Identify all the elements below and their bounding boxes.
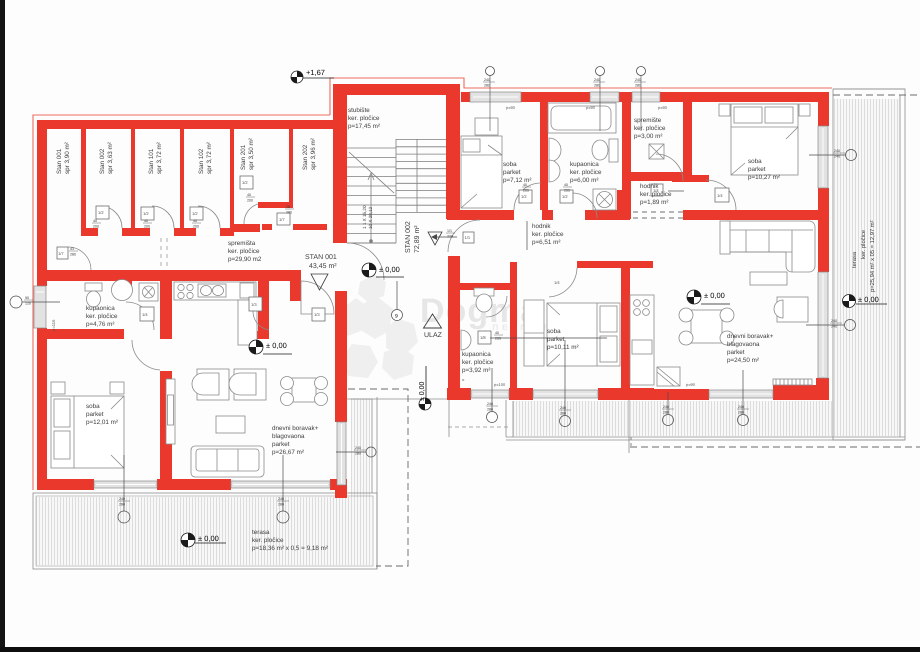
sofa living left <box>191 446 264 477</box>
door arc spremiste <box>656 154 683 181</box>
svg-text:280: 280 <box>594 84 600 88</box>
wardrobe soba 10,11 <box>524 300 544 366</box>
bed soba 12,01 <box>51 396 124 468</box>
top row bottom wall seg1 <box>447 210 514 220</box>
dim circle terrace left 2 <box>277 455 289 523</box>
svg-text:p=7,12 m²: p=7,12 m² <box>503 177 532 184</box>
svg-text:240: 240 <box>487 402 493 406</box>
svg-text:1/1: 1/1 <box>465 235 471 240</box>
svg-text:ker. pločice: ker. pločice <box>640 191 672 198</box>
window top wall above kupaonica <box>590 92 619 102</box>
svg-text:ker. pločice: ker. pločice <box>462 359 494 366</box>
svg-text:p=6,51 m²: p=6,51 m² <box>532 239 561 246</box>
left outer wall lower <box>37 328 47 479</box>
storage divider 1 <box>81 129 86 228</box>
svg-text:soba: soba <box>86 403 100 410</box>
svg-text:ker. pločice: ker. pločice <box>228 248 260 255</box>
svg-text:p=100: p=100 <box>494 382 506 387</box>
bed soba 10,27 <box>731 104 798 175</box>
svg-text:40: 40 <box>495 331 499 335</box>
svg-text:1/1: 1/1 <box>447 229 452 233</box>
toilet kupaonica 6,00 <box>609 139 618 162</box>
marker +0,00 left apt <box>249 340 292 354</box>
svg-text:soba: soba <box>547 328 561 335</box>
svg-text:p=90: p=90 <box>658 105 668 110</box>
svg-text:1/2: 1/2 <box>562 194 568 199</box>
svg-text:1/2: 1/2 <box>143 211 149 216</box>
entry arrow STAN 002 <box>431 234 457 240</box>
bed soba 10,11 <box>547 303 620 366</box>
svg-text:1/3: 1/3 <box>251 302 257 307</box>
svg-text:p=3,92 m²: p=3,92 m² <box>462 367 491 374</box>
marker +0,00 right apt <box>687 290 730 304</box>
armchair living left b <box>234 369 266 400</box>
shower kupaonica 4,76 <box>139 283 158 301</box>
svg-text:240: 240 <box>831 325 837 329</box>
roof overhang dash line top right <box>833 94 920 96</box>
door leaf boxes <box>57 176 729 344</box>
right outer wall seg1 <box>818 102 829 126</box>
svg-text:ker. pločice: ker. pločice <box>86 313 118 320</box>
storage block top wall <box>37 120 347 129</box>
svg-text:1/7: 1/7 <box>58 251 64 256</box>
window right wall upper <box>818 126 828 188</box>
sink left apt <box>198 284 226 297</box>
storage divider 3 <box>180 129 184 228</box>
svg-text:240: 240 <box>834 149 840 153</box>
terrace bottom-left (hatched) <box>33 389 449 569</box>
leader line kupaonica 3,92 <box>490 337 607 339</box>
svg-text:280: 280 <box>487 408 493 412</box>
svg-text:ker. pločice: ker. pločice <box>634 125 666 132</box>
tv bench living left <box>166 379 175 444</box>
door arc kitchen niche <box>253 311 269 330</box>
svg-text:dnevni boravak+: dnevni boravak+ <box>727 333 774 340</box>
door arc soba 10,27 <box>706 180 736 210</box>
right apt bottom wall seg3 <box>598 388 654 400</box>
svg-text:240: 240 <box>738 405 744 409</box>
svg-text:1/8: 1/8 <box>480 335 486 340</box>
svg-text:205: 205 <box>564 189 570 193</box>
svg-text:parket: parket <box>727 349 745 356</box>
door arc storage cell 2 <box>100 206 122 228</box>
stove right apt <box>634 300 641 307</box>
divider stub above hodnik <box>617 190 630 219</box>
svg-text:p=3,00 m²: p=3,00 m² <box>634 133 663 140</box>
svg-text:240: 240 <box>834 155 840 159</box>
stair treads left flight <box>347 148 396 243</box>
svg-text:p=1,89 m²: p=1,89 m² <box>640 199 669 206</box>
thin red outline left building <box>33 78 832 490</box>
door arc kupaonica 3,92 <box>486 296 507 317</box>
door arc storage cell 4 <box>198 206 220 228</box>
svg-text:p=116: p=116 <box>51 319 56 331</box>
stove left apt <box>178 284 184 290</box>
scan edge bar left <box>0 0 5 652</box>
soba / living divider upper <box>160 281 172 339</box>
stair walk line with arrow <box>370 175 372 242</box>
svg-text:1/2: 1/2 <box>242 180 248 185</box>
svg-text:280: 280 <box>119 503 125 507</box>
circle 9 porch <box>392 281 403 321</box>
divider soba/kupaonica top row <box>540 102 548 210</box>
svg-text:kupaonica: kupaonica <box>462 351 491 358</box>
svg-text:± 0,00: ± 0,00 <box>704 291 725 300</box>
stairwell left wall <box>333 95 347 243</box>
svg-text:43,45 m²: 43,45 m² <box>309 263 337 270</box>
svg-text:240: 240 <box>635 78 641 82</box>
dim circle right apt bottom 3 <box>663 392 674 426</box>
svg-text:p=26,67 m²: p=26,67 m² <box>272 449 304 456</box>
svg-text:STAN 001: STAN 001 <box>305 254 337 261</box>
right apt bottom wall seg2 <box>509 388 533 400</box>
sink kupaonica 3,92 <box>461 330 471 350</box>
svg-text:hodnik: hodnik <box>532 223 551 230</box>
left outer wall upper <box>37 120 47 286</box>
storage divider 5 <box>289 129 293 207</box>
right apt bottom wall seg1 <box>447 388 471 400</box>
toilet kupaonica 4,76 <box>85 283 102 291</box>
window bottom left apt 1 <box>94 481 157 488</box>
svg-text:200: 200 <box>144 225 150 229</box>
svg-text:1/2: 1/2 <box>98 210 104 215</box>
nightstand soba 12,01 b <box>110 382 124 394</box>
svg-text:1/4: 1/4 <box>554 280 560 285</box>
svg-text:ker. pločice: ker. pločice <box>570 169 602 176</box>
svg-text:p=12,01 m²: p=12,01 m² <box>86 419 118 426</box>
living room right wall <box>335 291 347 422</box>
stacked dim labels <box>24 78 845 507</box>
door arc storage cell 1 <box>68 247 91 270</box>
svg-text:240: 240 <box>355 446 361 450</box>
armchair living left a <box>197 369 229 400</box>
svg-text:240: 240 <box>484 78 490 82</box>
divider kupaonica/spremiste <box>622 102 631 219</box>
right apt bottom wall corner <box>773 385 829 400</box>
svg-text:205: 205 <box>523 189 529 193</box>
door arc kupaonica 6,00 <box>572 193 597 218</box>
watermark logo flower <box>336 274 418 380</box>
coffee table living left <box>216 416 245 433</box>
nightstand soba 12,01 a <box>51 382 65 394</box>
svg-text:ker. pločice: ker. pločice <box>348 115 380 122</box>
dining table left <box>292 378 316 402</box>
svg-text:p=10,11 m²: p=10,11 m² <box>547 344 579 351</box>
kitchen niche wall horizontal <box>240 331 269 339</box>
svg-text:1/3: 1/3 <box>314 312 320 317</box>
svg-text:240: 240 <box>663 405 669 409</box>
svg-text:blagovaona: blagovaona <box>727 341 760 348</box>
bathroom bottom wall <box>47 329 124 339</box>
svg-text:spremište: spremište <box>634 117 662 124</box>
door arc stairwell entry <box>347 243 384 280</box>
window top wall above soba 7,12 <box>470 92 521 102</box>
bottom wall left apartment seg1 <box>37 479 94 490</box>
window bottom right apt 2 <box>533 390 598 398</box>
scan edge bar bottom <box>0 647 920 652</box>
stair break diagonal <box>349 152 394 193</box>
svg-text:40: 40 <box>564 183 568 187</box>
window right wall lower <box>818 272 828 378</box>
kitchen counter right apt <box>630 295 654 385</box>
kitchen counter left apt <box>174 282 256 300</box>
right outer wall corner block <box>816 378 829 400</box>
svg-text:± 0,00: ± 0,00 <box>858 295 879 304</box>
soba 10,11 top wall <box>577 261 653 268</box>
marker +0,00 porch vertical <box>419 366 431 410</box>
svg-text:1/4: 1/4 <box>717 193 723 198</box>
svg-text:205: 205 <box>495 337 501 341</box>
corridor bottom wall / left apt top wall <box>37 270 301 281</box>
right building top wall <box>461 92 829 102</box>
svg-text:± 0,00: ± 0,00 <box>379 265 400 274</box>
svg-text:280: 280 <box>278 503 284 507</box>
storage divider 2 <box>131 129 135 228</box>
dishwasher right apt <box>657 367 680 386</box>
svg-text:spremišta: spremišta <box>228 240 256 247</box>
fridge left apt <box>240 283 254 298</box>
leader line hodnik 6,51 <box>526 221 528 250</box>
spremiste bottom wall <box>631 172 683 181</box>
svg-text:± 0,00: ± 0,00 <box>419 381 426 401</box>
dim circle right apt bottom 2 <box>560 340 571 427</box>
svg-text:blagovaona: blagovaona <box>272 433 305 440</box>
top row bottom wall seg2 <box>542 210 553 220</box>
door leaf soba 10,27 <box>720 221 730 254</box>
window left wall <box>34 286 46 328</box>
washing machine kupaonica 6,00 <box>593 189 616 210</box>
svg-text:parket: parket <box>86 411 104 418</box>
bed soba 7,12 <box>461 136 502 208</box>
svg-text:240: 240 <box>560 406 566 410</box>
dim circle right apt bottom 4 <box>738 370 749 426</box>
svg-text:parket: parket <box>503 169 521 176</box>
top row bottom wall seg3 <box>585 210 630 220</box>
leader line hodnik 1,89 <box>668 190 684 192</box>
svg-text:280: 280 <box>663 411 669 415</box>
sink kupaonica 4,76 <box>112 280 133 301</box>
svg-text:dnevni boravak+: dnevni boravak+ <box>272 425 319 432</box>
svg-text:stubište: stubište <box>348 107 370 114</box>
dim circle terrace right 1 <box>809 150 857 161</box>
svg-text:40: 40 <box>193 219 197 223</box>
svg-text:kupaonica: kupaonica <box>86 305 115 312</box>
svg-text:p=17,45 m²: p=17,45 m² <box>348 123 380 130</box>
svg-text:28: 28 <box>286 205 290 209</box>
kitchen niche wall vertical <box>258 281 269 332</box>
desk with chair right <box>777 297 808 322</box>
marker +0,00 stair <box>362 263 404 277</box>
soba / living divider lower <box>160 371 172 479</box>
kupaonica 3,92 right wall <box>510 262 517 388</box>
dim circle terrace right 2 <box>806 320 856 331</box>
svg-text:p=18,36 m² x 0,5 = 9,18 m²: p=18,36 m² x 0,5 = 9,18 m² <box>252 545 328 552</box>
svg-text:+1,67: +1,67 <box>306 68 325 77</box>
svg-text:43: 43 <box>70 247 74 251</box>
svg-text:40: 40 <box>93 219 97 223</box>
svg-text:1/4: 1/4 <box>142 312 148 317</box>
svg-text:1/2: 1/2 <box>192 211 198 216</box>
svg-text:ker. pločice: ker. pločice <box>532 231 564 238</box>
svg-text:280: 280 <box>635 84 641 88</box>
svg-text:1 1 X 15,2010 X 28,12: 1 1 X 15,2010 X 28,12 <box>362 205 373 229</box>
hodnik top wall piece <box>672 175 709 182</box>
dashed section lines corridor <box>161 238 167 269</box>
bottom wall left apartment seg2 <box>157 479 231 490</box>
svg-text:280: 280 <box>70 253 76 257</box>
door arc porch to right apt <box>448 220 480 252</box>
marker +0,00 terrace bottom <box>181 533 226 547</box>
svg-text:240: 240 <box>278 497 284 501</box>
svg-text:p=24,50 m²: p=24,50 m² <box>727 357 759 364</box>
marker +1,67 <box>291 68 334 83</box>
stair center line <box>395 139 397 243</box>
soba 10,11 right wall <box>621 268 630 400</box>
svg-text:200: 200 <box>93 225 99 229</box>
nightstand soba 10,27 left <box>719 104 730 116</box>
tiny p=90 labels <box>494 105 696 387</box>
storage cells bottom wall segments <box>81 228 98 236</box>
svg-text:p=90: p=90 <box>686 382 696 387</box>
sofa living right <box>721 221 815 272</box>
svg-text:p=29,90 m2: p=29,90 m2 <box>228 256 262 263</box>
svg-text:parket: parket <box>748 166 766 173</box>
svg-text:p=90: p=90 <box>506 105 516 110</box>
svg-text:soba: soba <box>748 158 762 165</box>
svg-text:120: 120 <box>25 302 31 306</box>
svg-text:terasa: terasa <box>252 529 270 536</box>
svg-text:240: 240 <box>831 319 837 323</box>
svg-text:9: 9 <box>395 314 398 320</box>
window porch side wall <box>337 422 346 485</box>
window bottom left apt 2 <box>231 481 330 488</box>
triangle STAN 001 <box>311 274 328 290</box>
porch right wall <box>448 256 460 400</box>
svg-text:90: 90 <box>25 296 29 300</box>
stairwell right wall <box>446 95 460 219</box>
svg-text:kupaonica: kupaonica <box>570 161 599 168</box>
svg-text:p=4,76 m²: p=4,76 m² <box>86 321 115 328</box>
right apt bottom wall seg4 <box>654 389 709 400</box>
dashed hodnik boundary <box>448 212 683 427</box>
heater spremiste <box>649 144 664 159</box>
svg-text:220: 220 <box>447 235 453 239</box>
label ULAZ <box>424 314 442 328</box>
svg-text:parket: parket <box>272 441 290 448</box>
svg-text:± 0,00: ± 0,00 <box>198 534 219 543</box>
svg-text:40: 40 <box>144 219 148 223</box>
svg-text:p=10,27 m²: p=10,27 m² <box>748 174 780 181</box>
nightstand soba 10,27 right <box>799 104 810 116</box>
svg-text:soba: soba <box>503 161 517 168</box>
svg-text:parket: parket <box>547 336 565 343</box>
bathroom divider jamb <box>122 281 132 287</box>
bathtub kupaonica 6,00 <box>548 103 616 133</box>
dining table right <box>691 310 722 343</box>
terrace bottom-right boundary <box>449 400 905 453</box>
door arc soba 12,01 <box>132 340 160 370</box>
tall cabinet left apt <box>238 300 257 345</box>
right outer wall seg2 <box>818 188 829 272</box>
sinks kupaonica 6,00 <box>549 138 561 162</box>
triangle STAN 002 <box>428 232 442 245</box>
svg-text:240: 240 <box>119 497 125 501</box>
svg-text:ULAZ: ULAZ <box>424 332 443 339</box>
kupaonica 3,92 top wall <box>460 283 510 290</box>
dim circle right apt bottom 1 <box>487 368 498 423</box>
spremiste right wall <box>683 102 692 175</box>
svg-text:280: 280 <box>286 211 292 215</box>
door arc storage cell 5 <box>244 204 258 224</box>
dim circle terrace left 1 <box>118 455 130 523</box>
svg-text:280: 280 <box>355 452 361 456</box>
door arc bathroom 4,76 <box>126 302 154 330</box>
svg-text:ker. pločice: ker. pločice <box>252 537 284 544</box>
toilet kupaonica 3,92 <box>474 288 494 296</box>
bottom wall left apartment seg3 <box>330 479 347 490</box>
svg-text:hodnik: hodnik <box>640 183 659 190</box>
svg-text:p=90: p=90 <box>586 105 596 110</box>
stair treads right flight <box>396 140 446 213</box>
dim circle porch window <box>336 447 376 457</box>
svg-text:200: 200 <box>247 199 253 203</box>
stairwell top wall <box>333 84 460 95</box>
svg-text:1/7: 1/7 <box>279 217 285 222</box>
svg-text:200: 200 <box>193 225 199 229</box>
sliding door bottom right apt <box>709 390 773 398</box>
svg-text:280: 280 <box>484 84 490 88</box>
svg-text:40: 40 <box>247 193 251 197</box>
sideboard living right <box>750 272 787 285</box>
door arc soba 10,11 <box>549 268 577 297</box>
grille living right <box>773 379 812 385</box>
stair flight edges <box>347 242 396 244</box>
window bottom right apt 1 <box>471 390 509 398</box>
svg-text:1/2: 1/2 <box>521 194 527 199</box>
svg-text:240: 240 <box>594 78 600 82</box>
door arc corridor to porch <box>301 281 334 314</box>
terrace right (hatched) <box>513 89 905 440</box>
door arc soba 7,12 <box>514 183 541 210</box>
desk soba 7,12 <box>475 118 498 135</box>
svg-text:± 0,00: ± 0,00 <box>266 341 287 350</box>
svg-text:p=6,00 m²: p=6,00 m² <box>570 177 599 184</box>
dim circle left wall <box>10 296 60 308</box>
window top wall above spremiste <box>632 92 660 102</box>
door arc storage cell 3 <box>152 206 174 228</box>
marker +0,00 terrace right <box>843 295 888 308</box>
wall between soba 10,27 and living <box>683 210 829 220</box>
svg-text:280: 280 <box>560 412 566 416</box>
storage divider 4 <box>230 129 234 230</box>
roof overhang dash line bottom right <box>630 446 920 448</box>
vent circles top wall <box>486 67 646 132</box>
svg-text:280: 280 <box>738 411 744 415</box>
